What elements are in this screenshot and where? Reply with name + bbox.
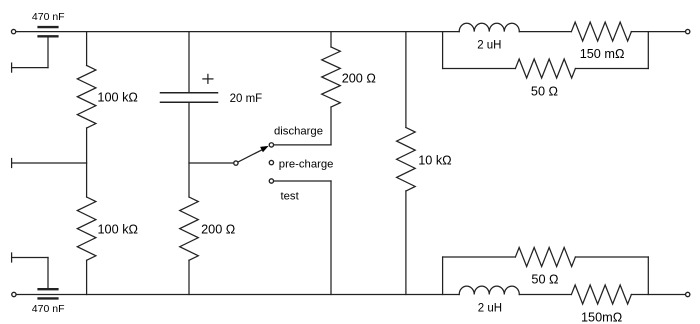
svg-text:200 Ω: 200 Ω bbox=[342, 72, 376, 86]
svg-text:470 nF: 470 nF bbox=[32, 303, 65, 315]
svg-text:10 kΩ: 10 kΩ bbox=[418, 153, 451, 167]
svg-text:100 kΩ: 100 kΩ bbox=[98, 223, 139, 237]
svg-text:50 Ω: 50 Ω bbox=[531, 85, 558, 99]
svg-text:2 uH: 2 uH bbox=[478, 303, 502, 315]
svg-text:470 nF: 470 nF bbox=[32, 11, 65, 23]
svg-text:test: test bbox=[281, 191, 300, 203]
svg-text:discharge: discharge bbox=[274, 126, 323, 138]
svg-text:50 Ω: 50 Ω bbox=[531, 273, 558, 287]
svg-text:200 Ω: 200 Ω bbox=[201, 223, 235, 237]
svg-text:2 uH: 2 uH bbox=[477, 39, 501, 51]
svg-text:100 kΩ: 100 kΩ bbox=[97, 91, 138, 105]
svg-text:150 mΩ: 150 mΩ bbox=[580, 47, 625, 61]
svg-text:150mΩ: 150mΩ bbox=[581, 311, 622, 324]
svg-text:20 mF: 20 mF bbox=[230, 93, 263, 105]
svg-text:pre-charge: pre-charge bbox=[279, 158, 334, 170]
